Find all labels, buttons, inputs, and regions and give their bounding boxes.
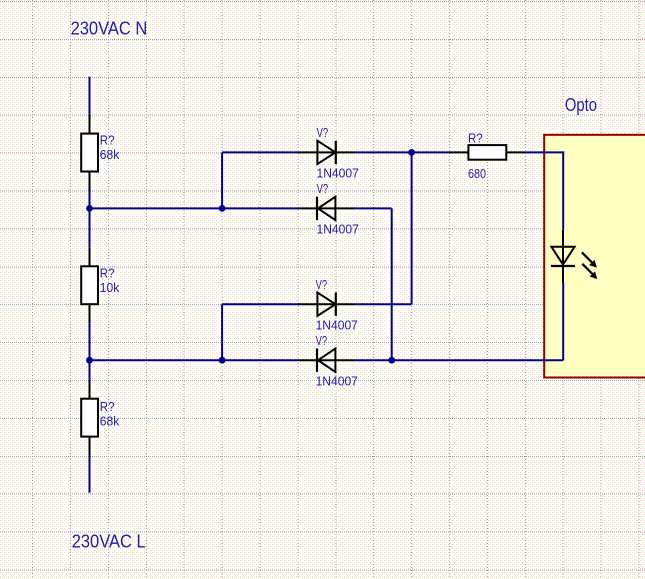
diode V2 1N4007 <box>299 181 359 237</box>
resistor R4 680 <box>450 130 526 181</box>
wire opto anode vertical <box>562 151 564 229</box>
wire row1 left vertical from row2 <box>221 152 223 208</box>
wire row4 horizontal from rail <box>90 359 299 361</box>
opto-coupler box Opto <box>544 135 645 378</box>
junction node row1 x411 <box>408 149 415 156</box>
svg-text:1N4007: 1N4007 <box>316 373 358 388</box>
wire row2 horizontal from rail <box>90 207 299 209</box>
wire R4 into opto box <box>525 151 563 153</box>
label Opto <box>565 95 597 115</box>
svg-text:68k: 68k <box>100 413 120 428</box>
svg-text:V?: V? <box>317 125 329 140</box>
svg-text:R?: R? <box>100 132 115 147</box>
wire row4 to opto cathode <box>355 359 563 361</box>
wire row2 drop to row4 <box>391 208 393 360</box>
svg-text:R?: R? <box>100 266 115 281</box>
svg-text:R?: R? <box>468 130 483 145</box>
LED emission arrow 2 <box>582 264 597 279</box>
svg-text:Opto: Opto <box>565 95 597 115</box>
wire row3 left vertical to row4 <box>221 304 223 360</box>
junction node rail row4 <box>86 357 93 364</box>
wire row3 horizontal to diode V3 <box>222 303 299 305</box>
junction node row4 x222 <box>219 357 226 364</box>
wire row2 diode V2 right <box>355 207 392 209</box>
resistor R1 68k <box>81 115 120 191</box>
wire row3 rise to row1 <box>411 152 413 304</box>
wire row3 diode V3 right <box>355 303 412 305</box>
svg-text:V?: V? <box>317 181 329 196</box>
resistor R3 68k <box>81 380 120 456</box>
wire 230VAC L vertical drop <box>89 456 91 493</box>
svg-text:10k: 10k <box>100 280 120 295</box>
wire rail between R1 and R2 <box>89 191 91 248</box>
svg-text:1N4007: 1N4007 <box>316 317 358 332</box>
LED emission arrow 1 <box>582 252 597 267</box>
junction node row2 x222 <box>219 205 226 212</box>
net label 230VAC N <box>71 19 148 39</box>
wire row1 horizontal to diode V1 <box>222 151 299 153</box>
svg-text:680: 680 <box>468 166 486 181</box>
junction node rail row2 <box>86 205 93 212</box>
svg-text:1N4007: 1N4007 <box>317 166 359 181</box>
LED D1 inside opto <box>551 230 575 283</box>
junction node row4 x391 <box>388 357 395 364</box>
svg-text:230VAC L: 230VAC L <box>72 532 146 552</box>
diode V4 1N4007 <box>299 333 358 389</box>
wire rail between R2 and R3 <box>89 323 91 380</box>
svg-text:V?: V? <box>316 333 328 348</box>
net label 230VAC L <box>72 532 146 552</box>
diode V3 1N4007 <box>299 277 358 333</box>
svg-text:R?: R? <box>100 399 115 414</box>
svg-text:1N4007: 1N4007 <box>317 222 359 237</box>
resistor R2 10k <box>81 247 120 323</box>
wire 230VAC N vertical drop <box>89 77 91 115</box>
svg-text:230VAC N: 230VAC N <box>71 19 148 39</box>
wire opto cathode vertical <box>562 283 564 360</box>
diode V1 1N4007 <box>299 125 359 181</box>
svg-text:68k: 68k <box>100 147 120 162</box>
wire row1 diode V1 to R4 <box>355 151 450 153</box>
svg-text:V?: V? <box>316 277 328 292</box>
